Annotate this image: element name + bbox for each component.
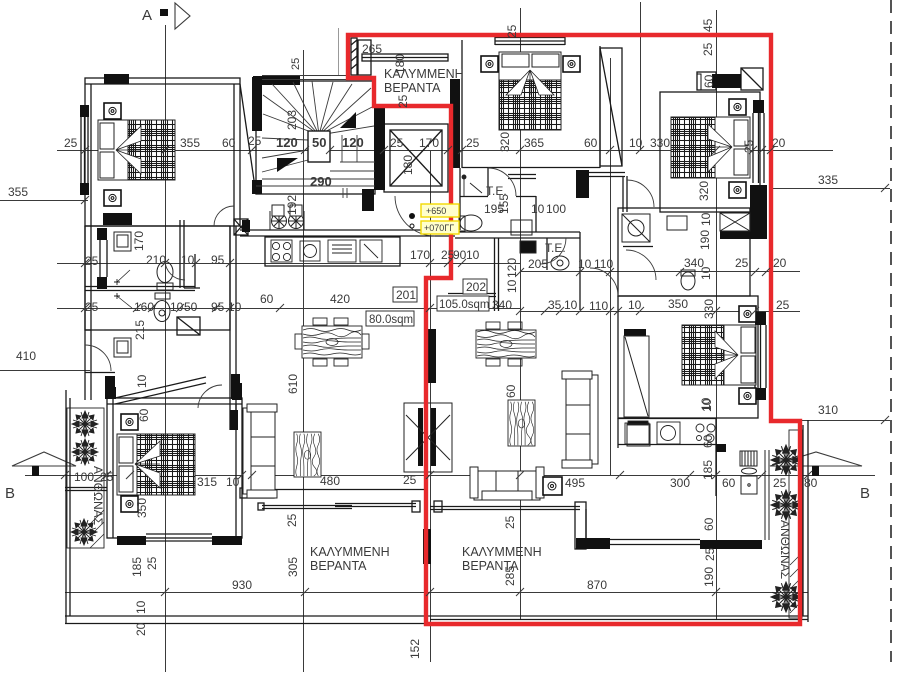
svg-text:10: 10: [578, 257, 592, 271]
toilets 202: [459, 213, 750, 290]
left wall window caps: [80, 105, 89, 117]
svg-text:25: 25: [85, 300, 99, 314]
wall at 202 hall: [576, 170, 589, 198]
bedroom bottom wall chunk: [103, 213, 132, 225]
dining sideboard X table (right of red line): [404, 403, 452, 472]
window left wall bedroom: [80, 117, 82, 183]
greek labels: [91, 67, 792, 579]
svg-text:330: 330: [702, 299, 716, 319]
window caps right bed2: [755, 312, 766, 325]
dim line y592: [65, 592, 808, 594]
TV unit left apt: [294, 432, 321, 477]
svg-text:290: 290: [310, 174, 332, 189]
svg-text:480: 480: [320, 474, 340, 488]
wheelchair symbol: [270, 205, 304, 230]
stair direction triangles: [340, 112, 356, 128]
horizontal dim line y200 left: [0, 200, 88, 202]
dining table left apt: [295, 318, 369, 366]
kitchen top wall left apt: [240, 229, 455, 231]
dimension ticks: [61, 146, 889, 596]
svg-text:25: 25: [248, 134, 262, 148]
window right wall bed1: [752, 113, 754, 183]
svg-text:25: 25: [503, 515, 517, 529]
svg-text:60: 60: [222, 136, 236, 150]
svg-text:25: 25: [701, 42, 715, 56]
kitchen black wall right of counter 202: [716, 444, 726, 452]
bed top-left bedroom: [98, 103, 175, 206]
svg-text:+650: +650: [426, 206, 446, 216]
202 kitchen right: [617, 418, 619, 448]
horizontal dim line y263: [57, 263, 520, 265]
marker B right: [770, 452, 870, 502]
svg-text:80: 80: [804, 476, 818, 490]
horizontal dim line y272 right: [520, 271, 800, 273]
svg-text:340: 340: [492, 298, 512, 312]
bed 202 mid-top bedroom (vertical): [481, 52, 580, 130]
vertical dim line x330 short top: [338, 28, 340, 76]
svg-text:25: 25: [742, 139, 756, 153]
svg-text:10: 10: [226, 475, 240, 489]
svg-text:110: 110: [594, 257, 613, 271]
horizontal dim line y420 right: [800, 420, 890, 422]
svg-text:180: 180: [401, 155, 415, 175]
marker B left: [5, 452, 76, 502]
elevator east wall: [450, 79, 460, 168]
yellow level tags: [409, 204, 459, 234]
svg-text:20: 20: [772, 136, 786, 150]
svg-text:35: 35: [548, 298, 562, 312]
toilets / baths left: [114, 232, 173, 357]
svg-text:10: 10: [466, 248, 480, 262]
svg-text:20: 20: [134, 622, 148, 636]
svg-text:170: 170: [410, 248, 430, 262]
svg-text:25: 25: [466, 136, 480, 150]
svg-text:50: 50: [312, 135, 326, 150]
svg-text:ΒΕΡΑΝΤΑ: ΒΕΡΑΝΤΑ: [462, 559, 519, 573]
svg-text:610: 610: [286, 374, 300, 394]
elevator west wall: [374, 106, 385, 190]
bottom-left bedroom corners: [107, 387, 116, 399]
vertical dim line x305: [303, 50, 305, 672]
stair landing door at red step: [351, 38, 357, 75]
red-line window chunk (veranda): [423, 529, 431, 564]
svg-text:320: 320: [697, 181, 711, 201]
side table lamp 202: [543, 477, 562, 495]
veranda edge left apartment: [65, 487, 107, 489]
right bath/bedroom divider: [750, 185, 767, 239]
svg-text:105.0sqm: 105.0sqm: [439, 299, 490, 311]
svg-text:60: 60: [702, 74, 716, 88]
svg-text:335: 335: [818, 173, 838, 187]
svg-text:10: 10: [181, 253, 195, 267]
marker A top: [142, 3, 190, 29]
svg-text:870: 870: [587, 578, 607, 592]
section line B horizontal: [25, 475, 875, 477]
svg-text:A: A: [142, 7, 152, 24]
vertical dim line x640 top: [640, 2, 642, 150]
svg-text:25: 25: [396, 94, 410, 108]
sliding door wall left living: [262, 505, 352, 507]
ramp diagonal in hall: [115, 383, 206, 404]
svg-text:365: 365: [524, 136, 544, 150]
veranda outer slab: [65, 390, 67, 624]
svg-text:B: B: [5, 485, 15, 502]
lower run treads: [262, 160, 308, 172]
svg-text:185: 185: [130, 557, 144, 577]
vertical dim line x716: [716, 10, 718, 620]
svg-text:160: 160: [134, 300, 154, 314]
horizontal dim line y370 left: [0, 370, 90, 372]
corridor walls left apt: [229, 226, 231, 430]
svg-text:25: 25: [703, 547, 717, 561]
wardrobe bottom-right bedroom: [624, 336, 650, 446]
svg-text:152: 152: [408, 639, 422, 659]
svg-text:B: B: [860, 485, 870, 502]
202 top-right bedroom: [660, 92, 760, 212]
svg-text:ΚΑΛΥΜΜΕΝΗ: ΚΑΛΥΜΜΕΝΗ: [310, 545, 390, 559]
vertical dim line x610: [610, 58, 612, 475]
svg-text:ΒΕΡΑΝΤΑ: ΒΕΡΑΝΤΑ: [310, 559, 367, 573]
svg-text:355: 355: [8, 185, 28, 199]
kitchen appliances 202: [625, 421, 715, 444]
bed 202 top-right bedroom (horizontal, head right): [671, 99, 750, 198]
window bath left: [99, 240, 101, 277]
horizontal dim line y311 right: [520, 311, 800, 313]
left wall hall black chunk: [105, 376, 115, 399]
svg-text:50: 50: [184, 300, 198, 314]
svg-text:10: 10: [699, 397, 713, 411]
svg-text:305: 305: [286, 557, 300, 577]
svg-text:20: 20: [773, 256, 787, 270]
stair left wall black: [252, 77, 262, 131]
svg-text:60: 60: [260, 292, 274, 306]
window right wall bed2: [754, 325, 756, 388]
baths left block: [85, 226, 230, 330]
svg-text:10: 10: [628, 298, 642, 312]
svg-text:190: 190: [698, 230, 712, 250]
wardrobe 202 bed1: [600, 48, 622, 166]
svg-text:310: 310: [818, 403, 838, 417]
svg-text:120: 120: [342, 135, 364, 150]
svg-text:192: 192: [285, 195, 299, 215]
svg-text:930: 930: [232, 578, 252, 592]
svg-text:T.E.: T.E.: [486, 184, 507, 198]
top veranda window (common): [362, 54, 448, 61]
svg-text:201: 201: [396, 288, 416, 302]
svg-text:120: 120: [276, 135, 298, 150]
stair box: [256, 81, 375, 194]
left wall column below: [84, 226, 86, 400]
svg-text:355: 355: [180, 136, 200, 150]
window above stair: [262, 75, 348, 77]
svg-text:25: 25: [505, 24, 519, 38]
svg-text:190: 190: [702, 567, 716, 587]
wall chunk right bedroom top: [712, 74, 741, 88]
svg-text:25: 25: [390, 136, 404, 150]
vertical dim line x430: [430, 150, 432, 662]
svg-text:410: 410: [16, 349, 36, 363]
svg-text:10: 10: [564, 298, 578, 312]
svg-text:330: 330: [650, 136, 670, 150]
svg-text:T.E.: T.E.: [545, 241, 566, 255]
svg-text:60: 60: [722, 476, 736, 490]
svg-text:203: 203: [285, 110, 299, 130]
svg-text:265: 265: [362, 42, 382, 56]
svg-text:95: 95: [211, 300, 225, 314]
svg-text:95: 95: [211, 253, 225, 267]
svg-text:ΚΑΛΥΜΜΕΝΗ: ΚΑΛΥΜΜΕΝΗ: [384, 67, 464, 81]
svg-text:25: 25: [285, 513, 299, 527]
boxed labels: [366, 279, 490, 326]
svg-text:350: 350: [668, 297, 688, 311]
svg-text:495: 495: [565, 476, 585, 490]
double tick: [342, 188, 344, 198]
202 bottom-right bedroom: [618, 296, 758, 418]
window top of 202 bedroom1: [495, 37, 565, 39]
svg-text:195: 195: [484, 202, 504, 216]
202 living divider: [579, 232, 581, 310]
svg-text:25: 25: [773, 476, 787, 490]
svg-text:60: 60: [702, 517, 716, 531]
bed bottom-left bedroom: [117, 414, 195, 512]
TV unit 202: [508, 400, 535, 446]
svg-text:202: 202: [466, 280, 486, 294]
202 bath top right: [618, 208, 750, 296]
sofa 202 horizontal: [470, 467, 544, 500]
202 laundry appliance: [740, 450, 769, 540]
property dashed line right: [890, 0, 892, 662]
bottom-left bedroom: [107, 398, 242, 538]
veranda edge right apartment: [430, 506, 580, 508]
svg-text:420: 420: [330, 292, 350, 306]
wardrobe black bottom-right bedroom: [624, 329, 646, 336]
svg-text:10: 10: [135, 374, 149, 388]
svg-text:10: 10: [505, 279, 519, 293]
svg-text:25: 25: [290, 58, 302, 70]
svg-text:10: 10: [699, 212, 713, 226]
kitchen appliances left apt: [271, 240, 382, 262]
svg-text:185: 185: [701, 460, 715, 480]
bed 202 bottom-right bedroom: [682, 306, 756, 404]
vertical dim line x521: [520, 8, 522, 620]
svg-text:350: 350: [135, 498, 149, 518]
svg-text:170: 170: [132, 231, 146, 251]
svg-text:25: 25: [735, 256, 749, 270]
svg-text:ΑΝΘΩΝΑΣ: ΑΝΘΩΝΑΣ: [91, 466, 105, 525]
svg-text:25: 25: [776, 298, 790, 312]
svg-text:170: 170: [419, 136, 439, 150]
hall 202 walls: [459, 168, 461, 230]
horizontal dim line y308: [57, 308, 520, 310]
svg-text:10: 10: [699, 266, 713, 280]
svg-text:60: 60: [701, 434, 715, 448]
svg-text:ΚΑΛΥΜΜΕΝΗ: ΚΑΛΥΜΜΕΝΗ: [462, 545, 542, 559]
svg-text:60: 60: [137, 408, 151, 422]
elevator: [384, 124, 448, 192]
sofa left apt (vertical): [243, 404, 277, 498]
section line A vertical: [165, 25, 167, 672]
dining table 202: [476, 322, 536, 366]
closet row top-right bedroom: [697, 72, 716, 90]
svg-text:215: 215: [133, 320, 147, 340]
stair newel: [308, 131, 330, 162]
top-left bedroom top wall chunk: [104, 74, 129, 84]
svg-text:315: 315: [197, 475, 217, 489]
svg-text:25: 25: [64, 136, 78, 150]
kitchen counter left: [265, 237, 400, 266]
svg-text:320: 320: [498, 132, 512, 152]
top-left bedroom outline: [85, 78, 240, 226]
shaft between bedroom and stair: [240, 84, 256, 194]
svg-text:+070ΓΓ: +070ΓΓ: [424, 223, 454, 233]
T.E. leader: [462, 175, 482, 196]
sofa 202 (vertical): [562, 371, 598, 468]
left living chunk: [230, 410, 238, 430]
svg-text:80.0sqm: 80.0sqm: [369, 314, 413, 326]
svg-text:ΑΝΘΩΝΑΣ: ΑΝΘΩΝΑΣ: [778, 520, 792, 579]
shower tray bath2: [177, 317, 200, 335]
red-line wall chunk (between living rooms): [426, 329, 436, 383]
svg-text:205: 205: [528, 257, 548, 271]
svg-text:25: 25: [145, 556, 159, 570]
svg-text:45: 45: [701, 18, 715, 32]
svg-text:10: 10: [134, 600, 148, 614]
svg-text:10: 10: [531, 202, 545, 216]
svg-text:60: 60: [504, 384, 518, 398]
south wall 202 black chunks: [576, 538, 610, 549]
svg-text:10: 10: [228, 300, 242, 314]
svg-text:110: 110: [589, 299, 608, 313]
svg-text:25: 25: [403, 473, 417, 487]
svg-text:ΒΕΡΑΝΤΑ: ΒΕΡΑΝΤΑ: [384, 81, 441, 95]
horizontal dim line y150: [57, 150, 833, 152]
window bottom wall of bl bedroom: [146, 533, 212, 535]
svg-text:10: 10: [629, 136, 643, 150]
202 bedroom 1 (mid top): [461, 40, 463, 168]
svg-text:100: 100: [546, 202, 566, 216]
svg-text:60: 60: [584, 136, 598, 150]
horizontal dim line y188 right: [771, 188, 890, 190]
